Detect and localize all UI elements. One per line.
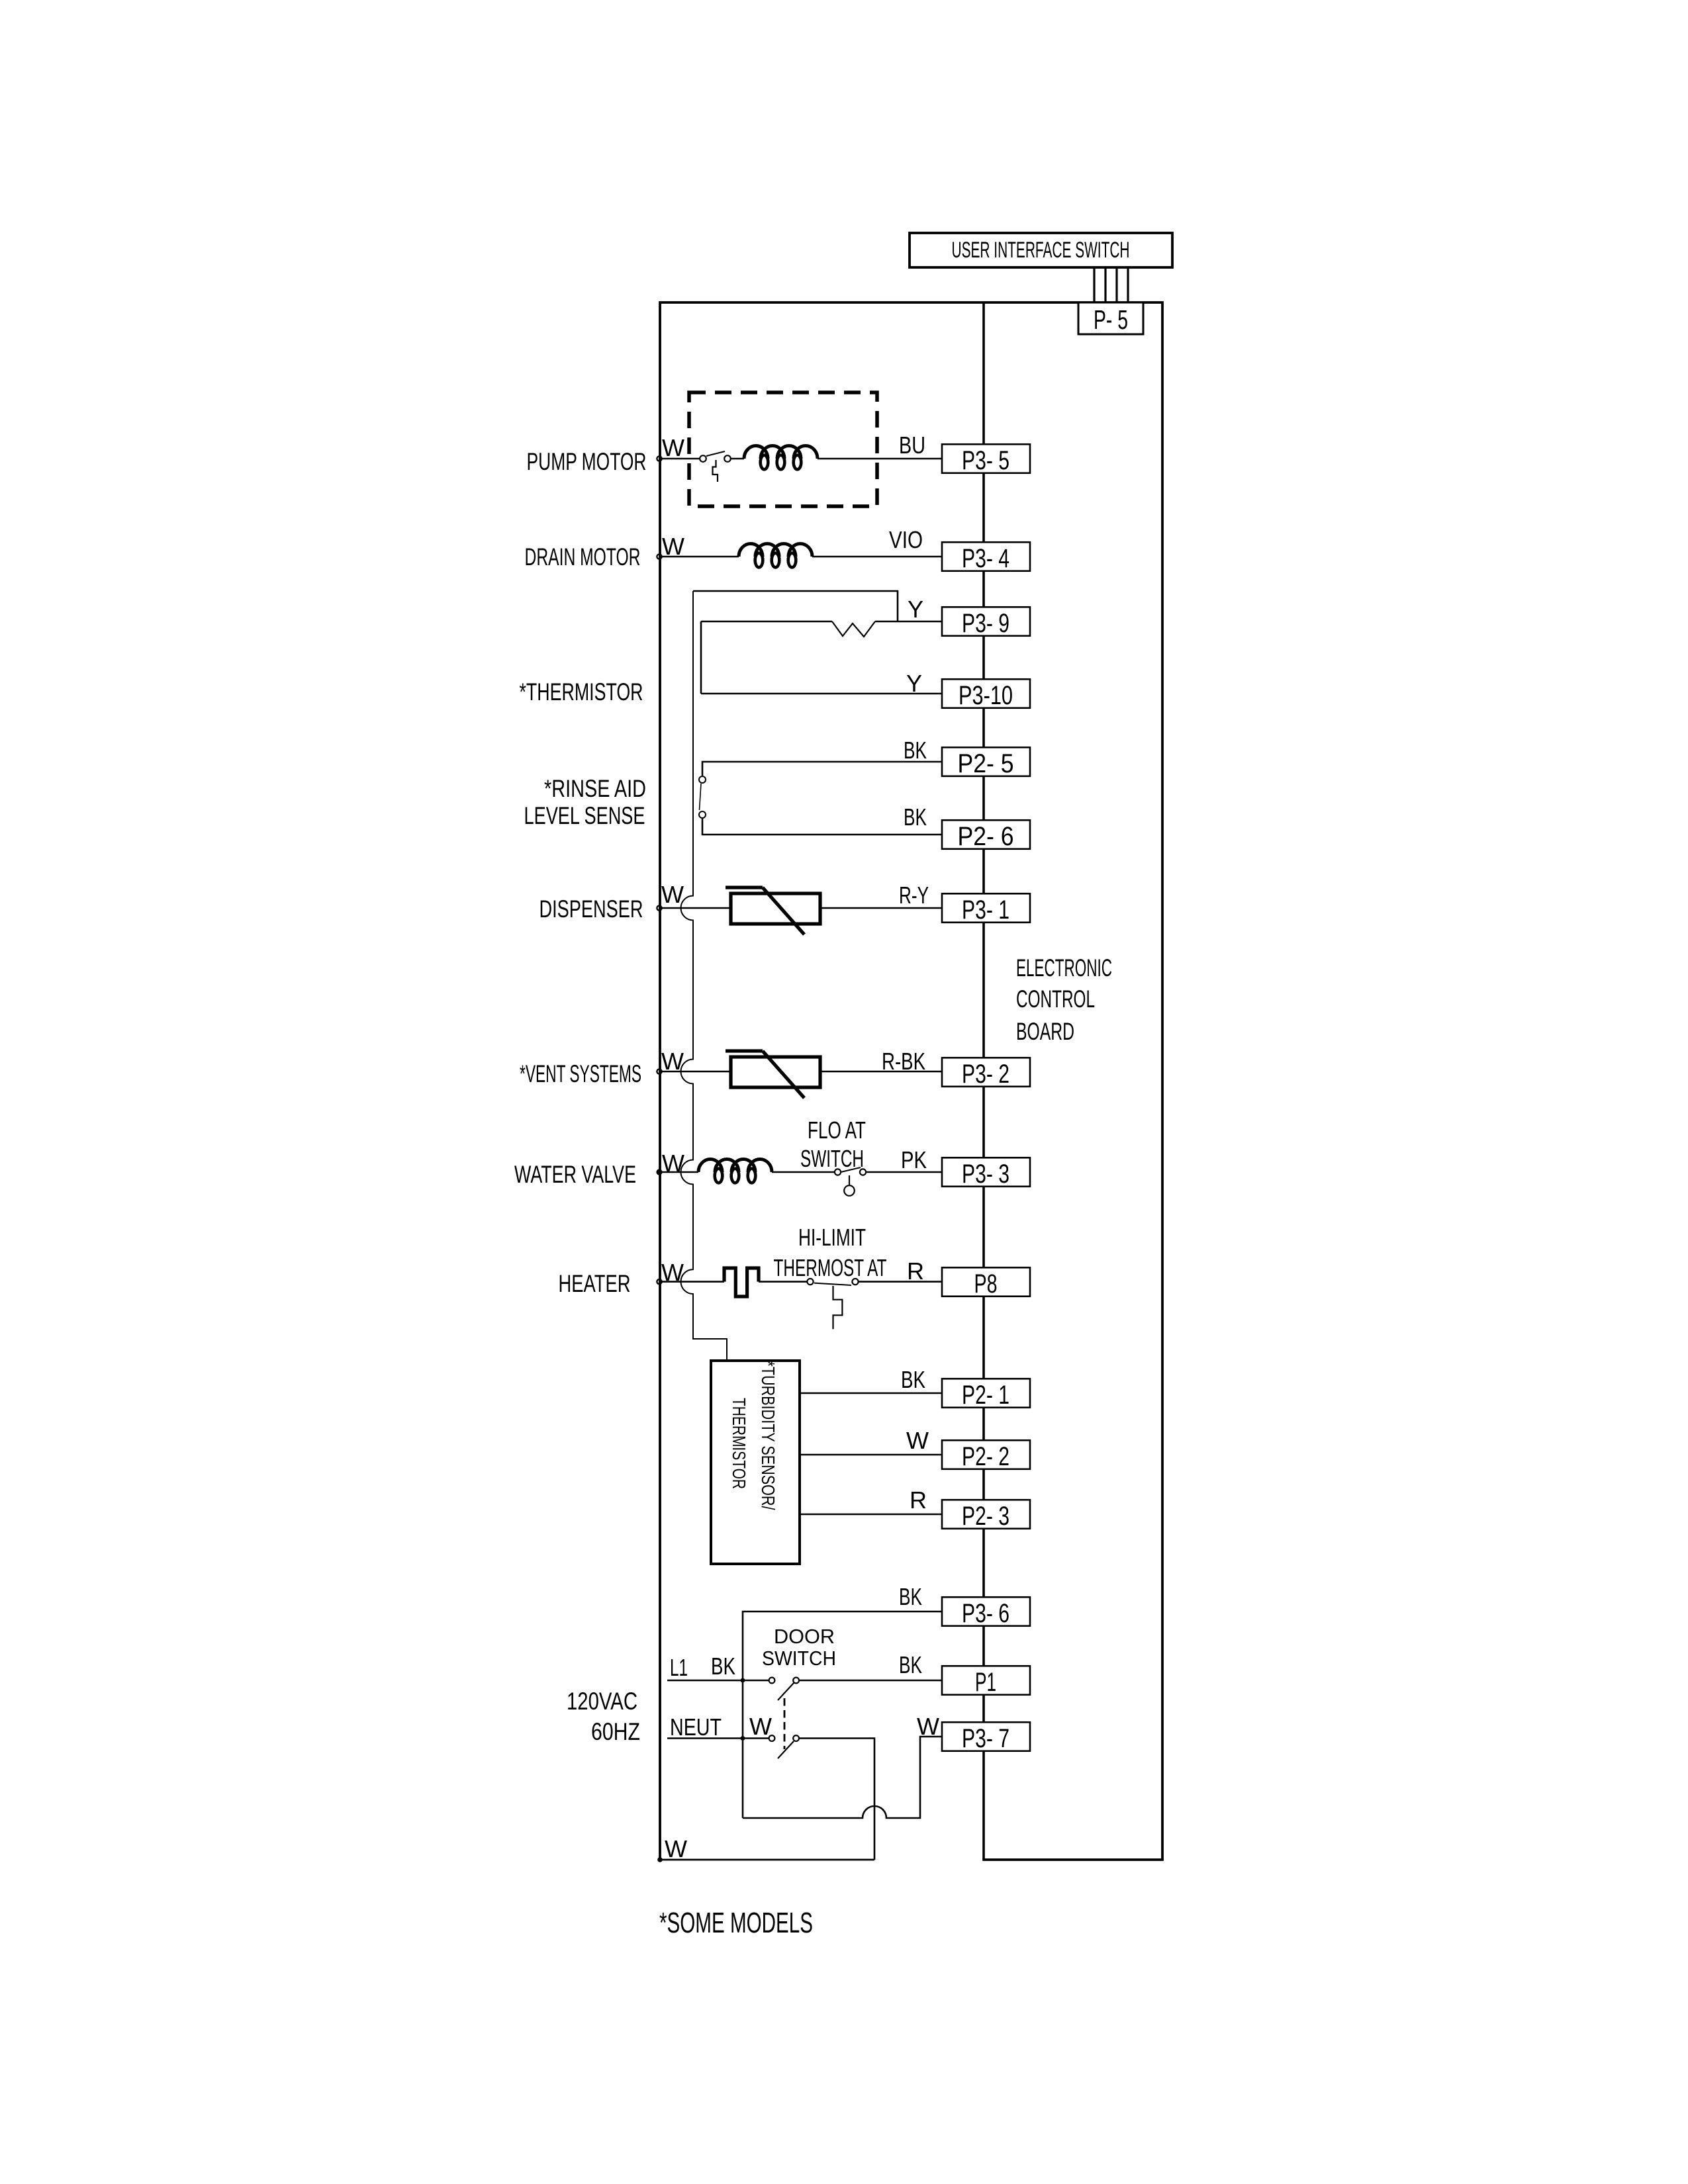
svg-text:P3- 2: P3- 2 xyxy=(962,1060,1009,1089)
connector P3-9 xyxy=(942,607,1030,638)
svg-text:W: W xyxy=(917,1713,939,1740)
wire: turbidity to P2-1, BK xyxy=(800,1392,942,1394)
connector P1 xyxy=(942,1666,1030,1697)
svg-text:BK: BK xyxy=(901,1366,925,1393)
label: *TURBIDITY SENSOR/ THERMISTOR (rotated) xyxy=(729,1361,778,1510)
heater element xyxy=(724,1268,759,1297)
label: NEUT W xyxy=(670,1713,772,1741)
svg-text:W: W xyxy=(665,1835,687,1862)
svg-text:L1: L1 xyxy=(670,1654,688,1681)
hi-limit thermostat switch xyxy=(807,1279,858,1329)
electronic control board left edge line xyxy=(982,302,985,1860)
connector P3-5 xyxy=(942,444,1030,475)
node: water valve W terminal xyxy=(657,1169,661,1174)
svg-text:P2- 5: P2- 5 xyxy=(958,749,1014,778)
wire: L1 feed xyxy=(667,1680,769,1682)
wire: W to drain winding xyxy=(662,556,739,558)
wire: turbidity to P2-3, R xyxy=(800,1514,942,1516)
svg-text:P2- 2: P2- 2 xyxy=(962,1442,1009,1471)
connector P3-7 xyxy=(942,1722,1030,1753)
svg-text:P2- 1: P2- 1 xyxy=(962,1381,1009,1410)
svg-text:P2- 3: P2- 3 xyxy=(962,1502,1009,1531)
svg-text:HI-LIMIT: HI-LIMIT xyxy=(798,1224,866,1251)
node: NEUT junction xyxy=(741,1736,745,1741)
svg-text:P8: P8 xyxy=(974,1269,998,1298)
node: pump motor W terminal xyxy=(657,456,661,461)
svg-text:BK: BK xyxy=(904,803,927,831)
label: L1 BK xyxy=(670,1653,735,1681)
svg-text:USER INTERFACE SWITCH: USER INTERFACE SWITCH xyxy=(952,238,1130,263)
label: FLOAT SWITCH xyxy=(800,1116,866,1172)
label: DOOR SWITCH xyxy=(762,1625,836,1670)
wire: switch to pump winding xyxy=(731,458,744,460)
svg-text:SWITCH: SWITCH xyxy=(800,1145,864,1172)
svg-text:VIO: VIO xyxy=(889,526,923,553)
wire: element to hi-limit thermostat xyxy=(759,1281,807,1283)
label: *RINSE AID LEVEL SENSE xyxy=(524,775,647,829)
svg-text:DISPENSER: DISPENSER xyxy=(539,895,643,923)
svg-text:THERMOST AT: THERMOST AT xyxy=(774,1254,887,1281)
wire: P2-6 branch xyxy=(702,818,942,835)
connector P3-4 xyxy=(942,542,1030,573)
door switch mechanical link (dashed) xyxy=(784,1698,786,1749)
wire: P2-5 branch xyxy=(702,762,942,776)
svg-text:P2- 6: P2- 6 xyxy=(958,822,1014,851)
svg-text:P3- 7: P3- 7 xyxy=(962,1724,1009,1753)
label: HI-LIMIT THERMOSTAT xyxy=(774,1224,887,1281)
svg-text:P1: P1 xyxy=(975,1668,996,1697)
wire: W to pump switch xyxy=(662,458,700,460)
svg-text:THERMISTOR: THERMISTOR xyxy=(729,1398,749,1489)
wire: door switch to P3-6, BK xyxy=(743,1612,942,1818)
svg-text:Y: Y xyxy=(906,670,922,697)
wire: W sense rail from thermistor to turbidity sensor (hops over W feeds) xyxy=(681,591,727,1361)
svg-text:HEATER: HEATER xyxy=(559,1270,631,1297)
svg-text:*TURBIDITY SENSOR/: *TURBIDITY SENSOR/ xyxy=(758,1361,778,1510)
wire: bottom W rail xyxy=(659,1859,875,1861)
svg-text:P3- 5: P3- 5 xyxy=(962,446,1009,475)
label: 120VAC 60HZ xyxy=(567,1688,640,1745)
wire: thermistor left leg down xyxy=(700,621,702,694)
svg-text:P3- 3: P3- 3 xyxy=(962,1160,1009,1189)
wire: P3-9 branch with thermistor resistor xyxy=(701,621,832,623)
wire: door switch to P1, BK xyxy=(799,1680,942,1682)
svg-text:P3- 4: P3- 4 xyxy=(962,544,1009,573)
connector P2-2 xyxy=(942,1440,1030,1471)
wire: W to valve solenoid xyxy=(662,1171,698,1173)
node: vent W terminal xyxy=(657,1069,661,1073)
svg-text:PUMP MOTOR: PUMP MOTOR xyxy=(527,448,647,475)
wire: turbidity to P2-2, W xyxy=(800,1454,942,1456)
svg-text:W: W xyxy=(749,1713,772,1740)
connector P3-3 xyxy=(942,1158,1030,1189)
svg-text:BOARD: BOARD xyxy=(1016,1018,1074,1045)
turbidity sensor / thermistor box xyxy=(711,1361,800,1564)
svg-text:R-BK: R-BK xyxy=(882,1048,925,1075)
connector P8 xyxy=(942,1267,1030,1298)
svg-text:P3- 6: P3- 6 xyxy=(962,1599,1009,1628)
svg-text:ELECTRONIC: ELECTRONIC xyxy=(1016,954,1112,981)
wire: thermistor top link (rail to P3-9 branch) xyxy=(693,591,898,621)
wire: W to vent actuator xyxy=(662,1071,731,1073)
node: drain motor W terminal xyxy=(657,554,661,559)
door switch pole 1 xyxy=(769,1678,799,1700)
wire: user interface switch to P-5, 4 conductors xyxy=(1094,267,1128,302)
pump motor centrifugal switch xyxy=(700,451,731,482)
wire: W to heater element xyxy=(662,1281,724,1283)
connector P3-1 xyxy=(942,893,1030,925)
connector P2-1 xyxy=(942,1379,1030,1410)
svg-text:BU: BU xyxy=(899,432,925,459)
connector P2-3 xyxy=(942,1500,1030,1531)
svg-text:*SOME MODELS: *SOME MODELS xyxy=(659,1907,813,1939)
svg-text:PK: PK xyxy=(901,1146,927,1173)
wire: vent to P3-2, R-BK xyxy=(820,1071,942,1073)
wire: pump winding to P3-5, BU xyxy=(818,458,942,460)
wire: dispenser to P3-1, R-Y xyxy=(820,907,942,909)
svg-text:DRAIN MOTOR: DRAIN MOTOR xyxy=(525,543,641,570)
svg-text:120VAC: 120VAC xyxy=(567,1688,637,1715)
door switch pole 2 xyxy=(769,1735,799,1758)
node: heater W terminal xyxy=(657,1279,661,1284)
svg-text:W: W xyxy=(662,434,684,461)
user interface switch box xyxy=(910,233,1172,267)
svg-text:BK: BK xyxy=(904,737,927,764)
connector P3-10 xyxy=(942,679,1030,710)
svg-text:W: W xyxy=(906,1427,929,1454)
svg-text:CONTROL: CONTROL xyxy=(1016,985,1095,1013)
connector P2-6 xyxy=(942,820,1030,851)
drain motor winding xyxy=(739,544,812,568)
svg-text:BK: BK xyxy=(899,1583,922,1610)
wiring harness outer boundary (W rail rectangle) xyxy=(660,302,1162,1860)
svg-text:P3- 1: P3- 1 xyxy=(962,895,1009,925)
pump motor winding xyxy=(744,446,818,470)
wire: neutral loop to P3-7 (hops over) xyxy=(743,1737,942,1818)
svg-text:W: W xyxy=(661,881,684,908)
svg-text:BK: BK xyxy=(711,1653,735,1680)
svg-text:*VENT SYSTEMS: *VENT SYSTEMS xyxy=(520,1060,641,1087)
svg-text:P- 5: P- 5 xyxy=(1094,304,1128,335)
dispenser wax motor actuator xyxy=(726,887,820,934)
wire: door switch pole 2 to bottom W rail xyxy=(799,1739,874,1860)
svg-text:WATER VALVE: WATER VALVE xyxy=(514,1161,636,1188)
svg-text:R-Y: R-Y xyxy=(899,882,929,909)
electronic control board bottom edge xyxy=(982,1858,1164,1861)
svg-text:P3- 9: P3- 9 xyxy=(962,609,1009,638)
pump motor dashed enclosure xyxy=(689,392,877,506)
wire: to P3-10 xyxy=(701,693,942,695)
wire: float switch to P3-3, PK xyxy=(866,1171,942,1173)
connector P-5 xyxy=(1078,302,1143,335)
node: L1 junction xyxy=(741,1678,745,1683)
float switch xyxy=(835,1167,866,1196)
wire: NEUT feed xyxy=(667,1737,769,1739)
rinse aid level switch xyxy=(699,776,706,818)
connector P3-6 xyxy=(942,1597,1030,1628)
svg-text:60HZ: 60HZ xyxy=(591,1718,640,1745)
node: bottom W rail corner xyxy=(657,1857,663,1862)
svg-text:*RINSE AID: *RINSE AID xyxy=(544,775,646,802)
svg-text:SWITCH: SWITCH xyxy=(762,1647,836,1670)
water valve solenoid winding xyxy=(698,1160,772,1183)
wire: solenoid to float switch xyxy=(772,1171,835,1173)
wire: thermostat to P8, R xyxy=(859,1281,942,1283)
svg-text:FLO AT: FLO AT xyxy=(808,1116,866,1144)
connector P2-5 xyxy=(942,747,1030,778)
wire: W to dispenser actuator xyxy=(662,907,731,909)
svg-text:LEVEL SENSE: LEVEL SENSE xyxy=(524,802,645,829)
wire: drain winding to P3-4, VIO xyxy=(812,556,942,558)
svg-text:P3-10: P3-10 xyxy=(959,681,1013,710)
svg-text:R: R xyxy=(907,1257,924,1285)
thermistor resistor zigzag xyxy=(832,621,875,637)
svg-text:BK: BK xyxy=(899,1651,922,1678)
connector P3-2 xyxy=(942,1058,1030,1089)
node: dispenser W terminal xyxy=(657,905,661,910)
svg-text:Y: Y xyxy=(908,596,923,623)
svg-text:NEUT: NEUT xyxy=(670,1713,722,1741)
svg-text:R: R xyxy=(910,1486,927,1514)
vent wax motor actuator xyxy=(726,1051,820,1098)
svg-text:DOOR: DOOR xyxy=(774,1625,835,1648)
label: electronic control board xyxy=(1016,954,1112,1045)
svg-text:*THERMISTOR: *THERMISTOR xyxy=(520,678,643,705)
